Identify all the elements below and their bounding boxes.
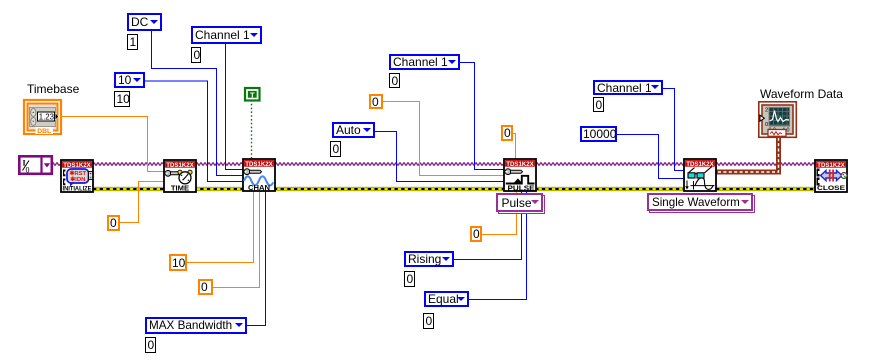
svg-text:CLOSE: CLOSE [817,185,846,192]
svg-text:TIME: TIME [171,184,189,193]
svg-text:TDS1K2X: TDS1K2X [506,161,534,168]
svg-text:T: T [250,90,255,99]
svg-text:CHAN: CHAN [248,183,270,192]
svg-text:2: 2 [765,108,768,114]
svg-text:✱RST: ✱RST [69,170,86,177]
svg-text:INITIALIZE: INITIALIZE [63,185,92,192]
svg-text:TDS1K2X: TDS1K2X [166,162,194,169]
svg-text:TDS1K2X: TDS1K2X [245,161,273,168]
svg-text:PULSE: PULSE [508,183,535,192]
svg-text:✱IDN: ✱IDN [70,176,85,183]
svg-text:TDS1K2X: TDS1K2X [817,162,845,169]
svg-text:DBL: DBL [37,128,51,135]
svg-text:TDS1K2X: TDS1K2X [686,161,714,168]
svg-text:0: 0 [26,166,30,175]
svg-text:1.23: 1.23 [39,112,54,121]
svg-text:TDS1K2X: TDS1K2X [63,162,91,169]
